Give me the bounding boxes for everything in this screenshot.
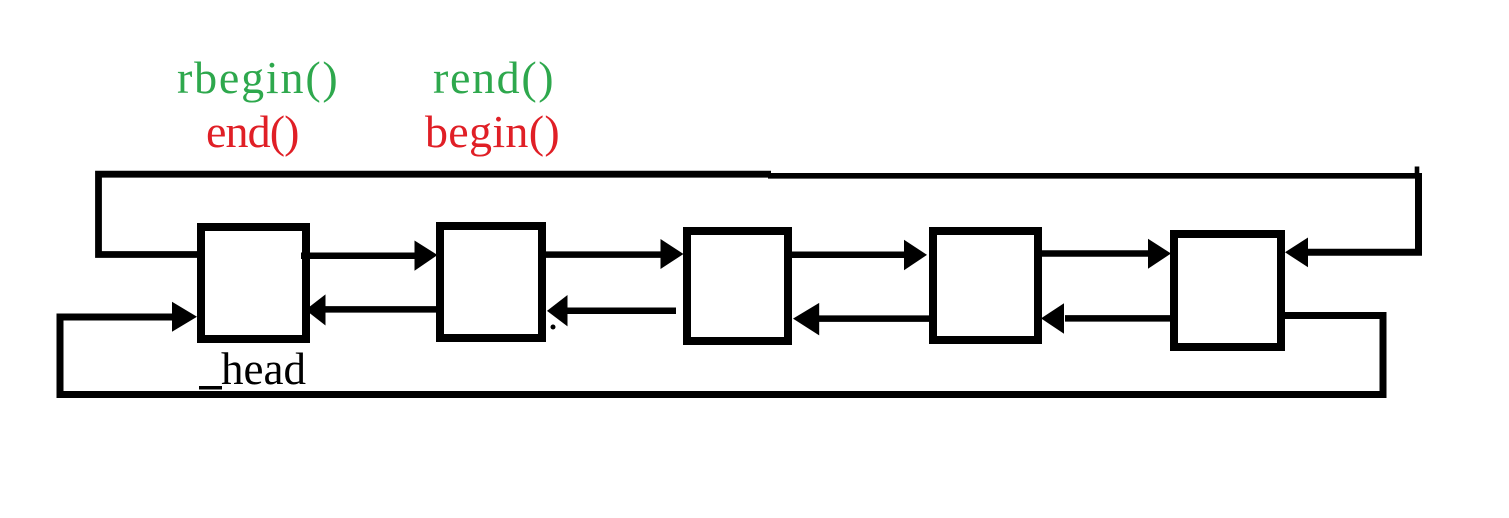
- node box 3: [687, 231, 788, 341]
- wire: prev arrow node5 to node4: [1065, 315, 1176, 322]
- wire: bottom wrap prev-pointer from node5 right around to node1 left: [60, 316, 1383, 395]
- svg-text:rend(): rend(): [433, 52, 555, 103]
- wire: next arrow node1 to node2: [301, 252, 418, 259]
- node box 2: [440, 226, 542, 338]
- wire: next arrow node4 to node5: [1039, 250, 1151, 257]
- stray ink tick above top-right corner: [1415, 167, 1420, 175]
- node box 5: [1174, 234, 1281, 347]
- wire: prev arrow node2 to node1: [324, 306, 441, 313]
- svg-text:head: head: [221, 344, 306, 394]
- wire: top rail right half (slightly offset, hand-drawn step): [768, 173, 1417, 179]
- arrowhead into node4 right edge: [1041, 303, 1064, 334]
- arrowhead into node3 right edge: [793, 303, 819, 336]
- wire: next arrow node2 to node3: [542, 251, 663, 258]
- wire: top wrap right vertical and return leg into node5: [1307, 173, 1419, 252]
- arrowhead into node3 left edge: [661, 239, 684, 269]
- wire: next arrow node3 to node4: [789, 252, 906, 259]
- stray ink dot near node2 lower right: [551, 325, 556, 330]
- svg-text:end(): end(): [206, 106, 299, 157]
- node box 4: [933, 231, 1038, 340]
- arrowhead into node1 right edge: [306, 294, 326, 325]
- wire: prev arrow node3 to node2: [566, 307, 676, 314]
- arrowhead into node4 left edge: [904, 240, 927, 271]
- arrowhead into node5 right edge (top wrap): [1285, 238, 1308, 268]
- svg-text:begin(): begin(): [425, 106, 560, 157]
- arrowhead into node2 left edge: [415, 241, 438, 271]
- label _head underscore: [199, 386, 222, 390]
- arrowhead into node2 right edge: [547, 295, 568, 326]
- wire: top wrap next-pointer, node1 left edge out to left rail and top rail (left half): [99, 174, 772, 254]
- arrowhead into node5 left edge: [1148, 239, 1171, 269]
- node box 1 (_head sentinel): [201, 227, 306, 339]
- wire: prev arrow node4 to node3: [818, 315, 931, 322]
- arrowhead into node1 left edge (bottom wrap): [172, 302, 197, 332]
- svg-text:rbegin(): rbegin(): [177, 52, 340, 103]
